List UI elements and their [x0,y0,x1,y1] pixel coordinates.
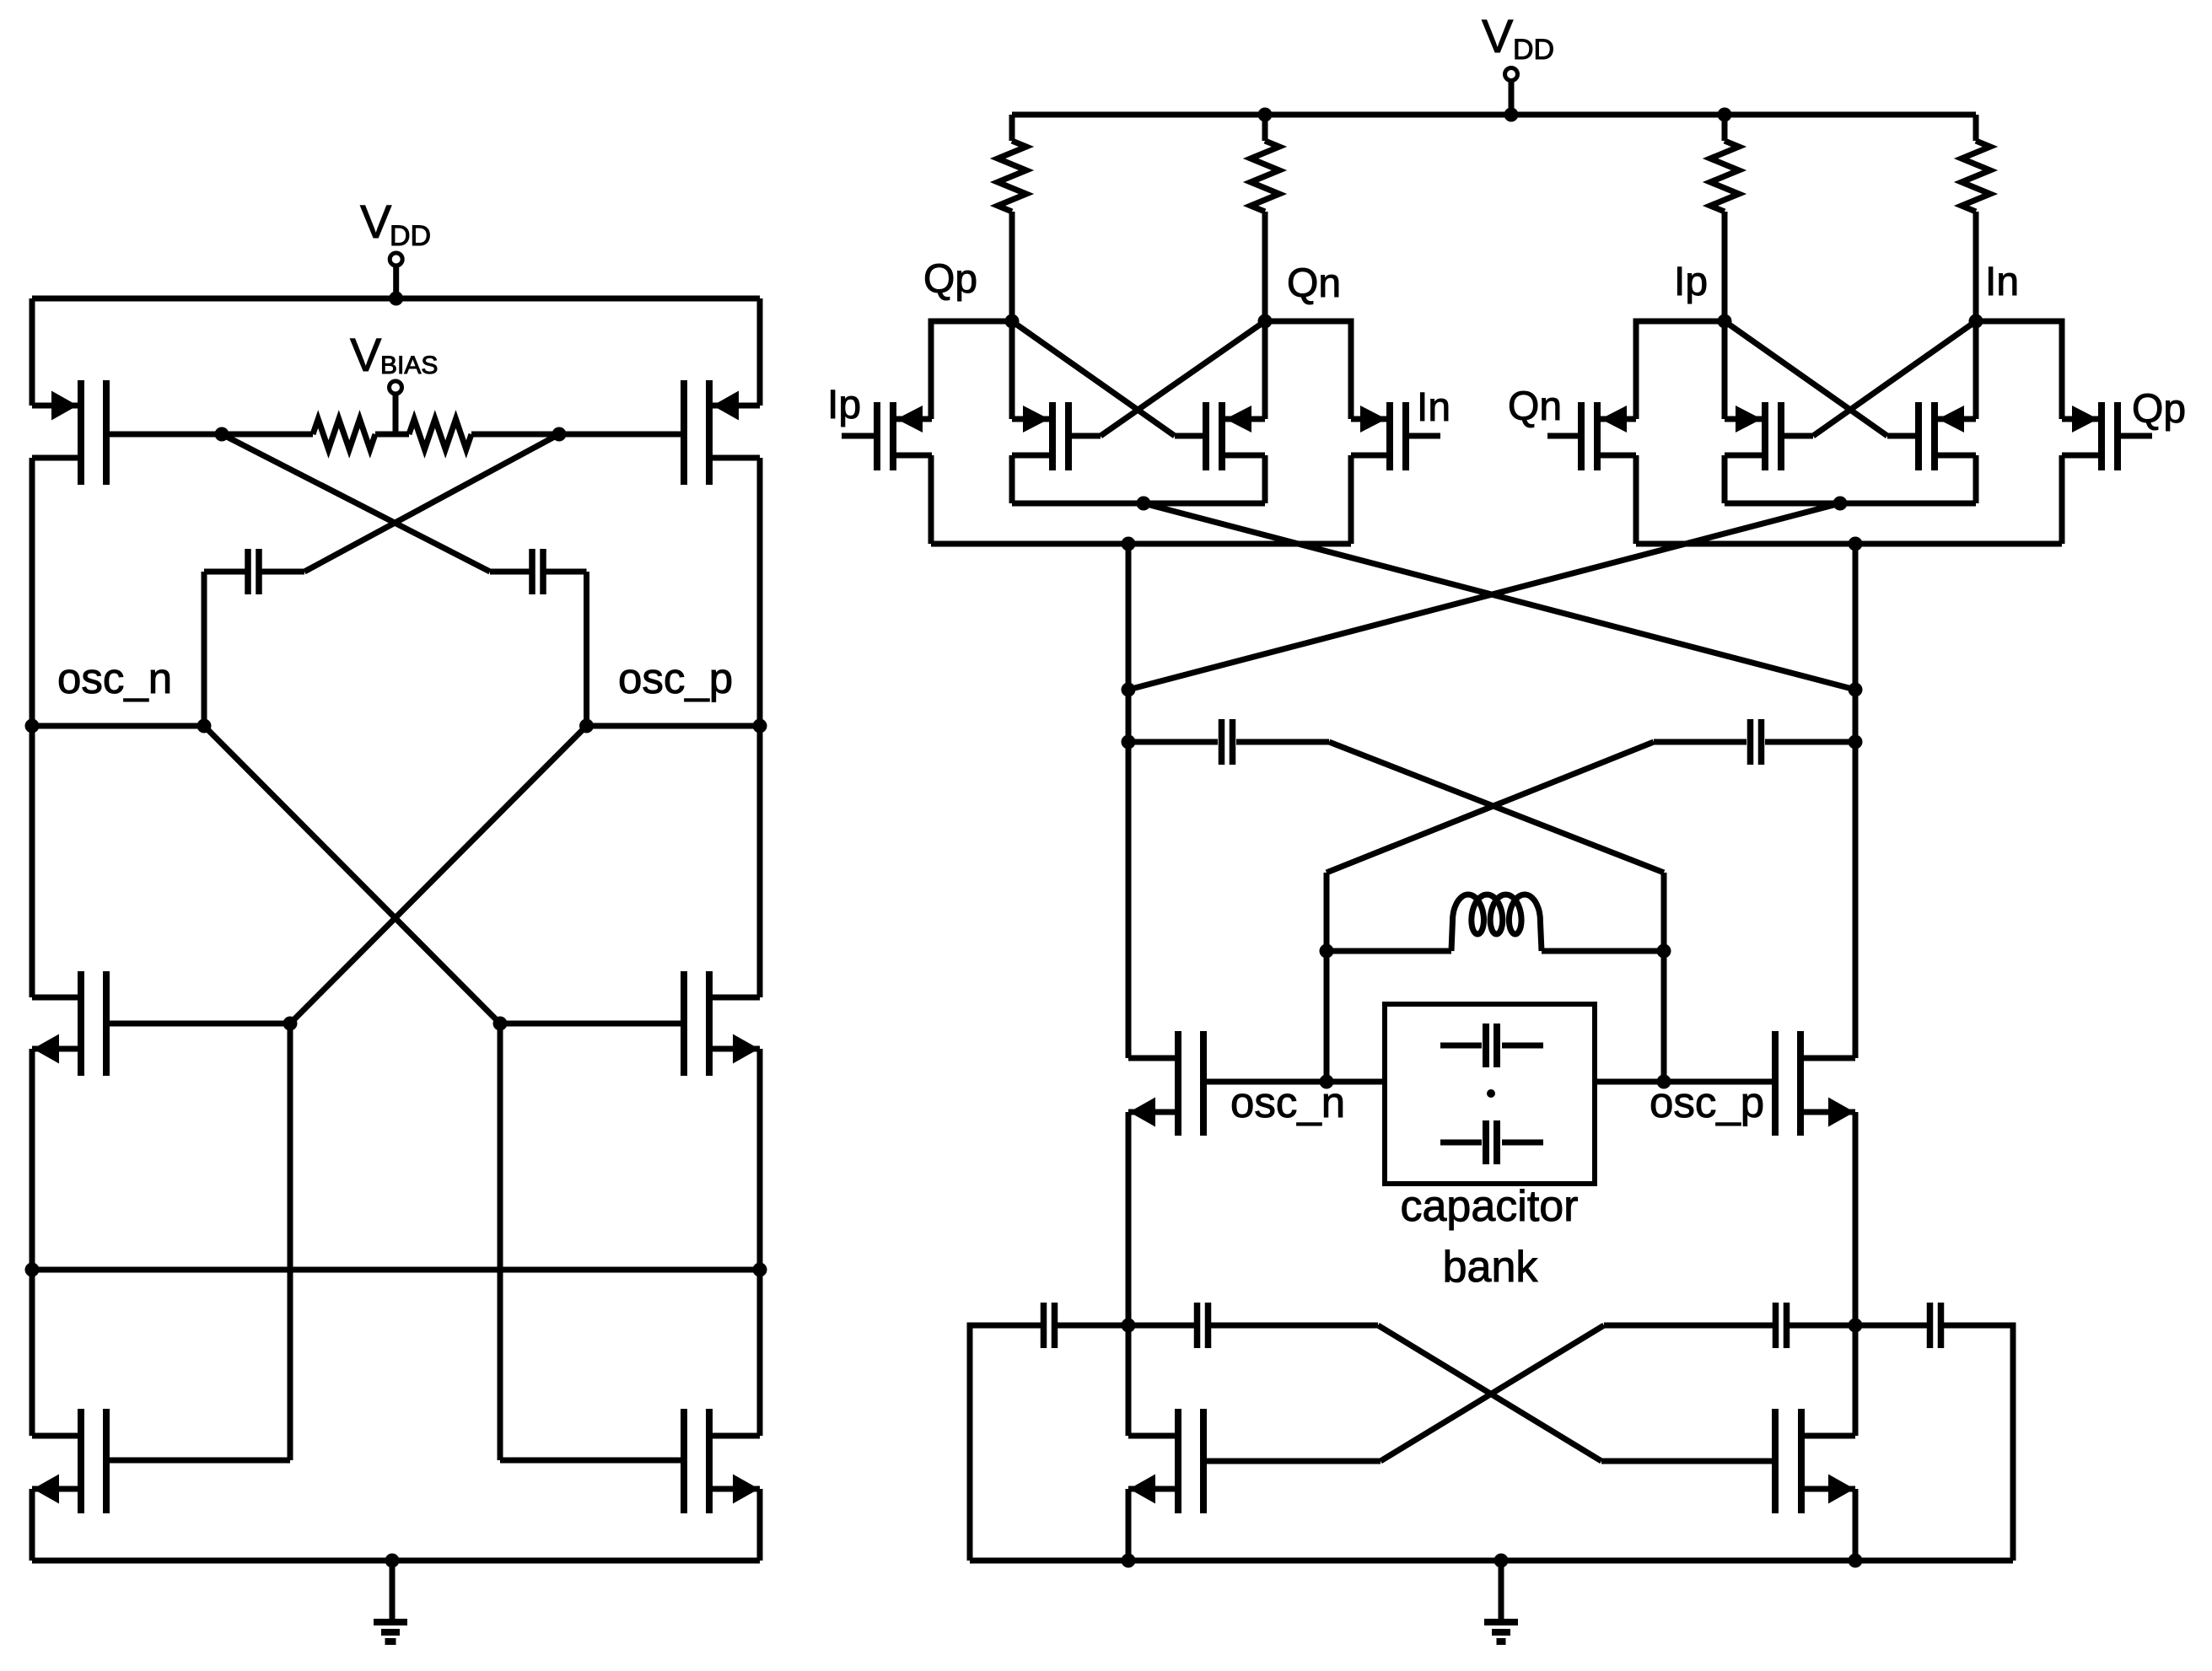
transistor P1 (top-left PMOS) [78,380,84,485]
svg-text:BIAS: BIAS [380,352,438,379]
wire M11 gate [1203,1459,1380,1464]
svg-text:DD: DD [390,220,431,252]
wire I latch tail [1725,501,1976,507]
capacitor C1 (left coupling cap) [204,569,245,575]
wire right rail bottom [757,1489,763,1561]
wire middle rail [32,1267,760,1273]
wire C2 to osc_p [584,572,589,726]
wire M6 gate to In (diagonal) [1813,321,1976,436]
node Qn [1258,314,1273,329]
wire Ip to M5 drain [1636,321,1725,419]
transistor N1 (middle-left NMOS) [78,971,84,1076]
resistor R1 [1009,115,1015,141]
svg-text:DD: DD [1513,34,1554,66]
wire Qn to M4 drain [1265,321,1351,419]
transistor M12 (bottom NMOS right) [1798,1409,1805,1513]
svg-text:osc_p: osc_p [1650,1078,1764,1126]
svg-text:osc_n: osc_n [1230,1078,1345,1126]
capacitor C2 (right coupling cap) [490,569,530,575]
wire Q latch source rail [931,541,1351,547]
wire left column to bottom rail [1126,1489,1132,1561]
ellipsis dot (capacitor bank) [1487,1089,1495,1098]
node osc_n wire [32,723,204,729]
wire osc_n (M9 gate to capacitor bank) [1203,1079,1385,1085]
wire osc_p to N1 gate (diagonal) [290,726,587,1024]
wire N2 gate to N4 gate (vertical) [498,1024,503,1460]
wire Qp to M1 drain [931,321,1012,419]
wire top rail (left circuit) [32,296,760,302]
svg-text:capacitor: capacitor [1401,1182,1579,1231]
svg-text:bank: bank [1443,1243,1539,1292]
wire osc_n to N2 gate (diagonal) [204,726,500,1024]
wire left rail upper [30,298,35,406]
wire N1 gate to N3 gate (vertical) [288,1024,293,1460]
wire Ip to M6 source (vertical) [1722,321,1728,419]
wire M6 drain to tail (I latch) [1722,455,1728,503]
wire tank right drop [1661,873,1667,951]
svg-text:V: V [1482,9,1514,62]
wire left rail bottom [30,1489,35,1561]
svg-text:V: V [360,195,392,248]
svg-text:Ip: Ip [1674,260,1708,304]
wire cross-couple C1 to node B [304,434,559,572]
svg-text:In: In [1985,260,2019,304]
resistor R4 [1973,115,1979,141]
svg-text:osc_n: osc_n [57,654,172,702]
transistor M3 (Q latch cross pair right) [1203,402,1209,470]
wire osc_p (capacitor bank to M10 gate) [1595,1079,1775,1085]
transistor N4 (bottom-right NMOS) [706,1409,713,1513]
wire Q tail to right column (long diagonal) [1144,503,1855,690]
transistor M1 (Ip input, Q latch) [874,402,880,470]
wire M1 drain down [928,455,934,544]
node In [1969,314,1983,329]
wire bottom cap row right end [1944,1325,2013,1561]
wire left column lower [1126,1112,1132,1436]
inductor L1 [1327,948,1451,954]
capacitor C6 (inner left) [1128,1323,1194,1329]
wire tank right to osc_p [1661,951,1667,1082]
node VDD (left circuit) terminal [390,253,402,266]
wire bottom cap row left end [970,1325,1041,1561]
wire N4 gate [500,1458,684,1464]
wire M7 gate to Ip (diagonal) [1725,321,1887,436]
node VBIAS terminal [390,381,402,394]
svg-text:osc_p: osc_p [618,654,733,702]
capacitor C7 (inner right) [1604,1323,1773,1329]
wire M4 drain down [1348,455,1354,544]
wire P2 gate to node B [559,432,684,438]
capacitor bank box [1385,1004,1595,1184]
transistor N3 (bottom-left NMOS) [78,1409,84,1513]
transistor M4 (In input, Q latch) [1402,402,1409,470]
svg-text:V: V [350,328,382,381]
svg-text:Qp: Qp [923,257,977,302]
wire C4 to tank left (diagonal) [1327,742,1654,873]
transistor N2 (middle-right NMOS) [706,971,713,1076]
wire bottom rail (left circuit) [32,1558,760,1564]
transistor M7 (I latch cross pair right) [1915,402,1922,470]
svg-text:Qn: Qn [1287,261,1341,306]
resistor R2 [1262,115,1268,141]
wire tank left drop [1324,873,1330,951]
wire I latch source rail [1636,541,2062,547]
transistor M2 (Q latch cross pair left) [1065,402,1072,470]
svg-text:Ip: Ip [827,383,861,427]
wire right column upper [1853,544,1859,1058]
wire M12 gate [1601,1459,1775,1464]
node osc_p wire [587,723,761,729]
wire M5 drain down [1633,455,1639,544]
wire Qp to M2 source (vertical) [1009,321,1015,419]
wire left rail lower [30,1049,35,1436]
wire In to M8 drain [1976,321,2062,419]
node Ip [1718,314,1732,329]
svg-text:Qp: Qp [2132,387,2186,432]
wire bottom rail (right circuit) [970,1558,2013,1564]
resistor R3 [1722,115,1728,141]
wire N3 gate [106,1458,290,1464]
wire M2 drain to tail (Q latch) [1009,455,1015,503]
wire I tail to left column (long diagonal) [1128,503,1840,690]
node Qp [1005,314,1020,329]
wire right rail upper [757,298,763,406]
transistor M10 (tank NMOS right) [1797,1031,1804,1136]
wire C1 to osc_n [202,572,207,726]
capacitor C10 (bank bottom) [1440,1140,1482,1146]
capacitor C8 (outer right) [1855,1323,1927,1329]
wire M8 drain down [2059,455,2065,544]
wire left rail mid (through osc_n) [30,458,35,997]
node VDD (right circuit) terminal [1505,68,1518,81]
wire right rail mid (through osc_p) [757,458,763,997]
transistor M11 (bottom NMOS left) [1175,1409,1181,1513]
wire In to M7 source (vertical) [1973,321,1979,419]
capacitor C4 (right feedback cap) [1765,739,1855,745]
wire left column upper [1126,544,1132,1058]
ground (left circuit) [390,1561,396,1620]
transistor M9 (tank NMOS left) [1175,1031,1181,1136]
wire N2 gate [500,1021,684,1027]
capacitor C5 (outer left) [1041,1303,1047,1348]
wire top rail (right circuit) [1012,112,1976,118]
transistor M5 (Qn input, I latch) [1578,402,1585,470]
wire cross-couple C2 to node A [222,434,490,572]
transistor M8 (Qp input, I latch) [2114,402,2121,470]
resistor R5 (VBIAS bias resistor) [222,432,313,438]
wire Q latch tail [1012,501,1265,507]
wire M3 gate to Qp (diagonal) [1012,321,1175,436]
wire M11 gate to C7 (diagonal) [1380,1325,1604,1461]
wire tank left to osc_n [1324,951,1330,1082]
wire P1 gate to node A [106,432,222,438]
wire C3 to tank right (diagonal) [1329,742,1664,873]
transistor M6 (I latch cross pair left) [1778,402,1784,470]
capacitor C3 (left feedback cap) [1128,739,1218,745]
wire right rail lower [757,1049,763,1436]
wire M7 drain to tail (I latch) [1973,455,1979,503]
wire M3 drain to tail (Q latch) [1262,455,1268,503]
wire right column to bottom rail [1853,1489,1859,1561]
transistor P2 (top-right PMOS) [706,380,713,485]
ground (right circuit) [1499,1561,1504,1620]
wire C6 to M12 gate (diagonal) [1378,1325,1601,1461]
svg-text:Qn: Qn [1508,384,1562,429]
svg-text:In: In [1417,385,1450,430]
wire right column lower [1853,1112,1859,1436]
capacitor C9 (bank top) [1440,1043,1482,1049]
wire M2 gate to Qn (diagonal) [1101,321,1265,436]
wire Qn to M3 source (vertical) [1262,321,1268,419]
wire N1 gate [106,1021,290,1027]
